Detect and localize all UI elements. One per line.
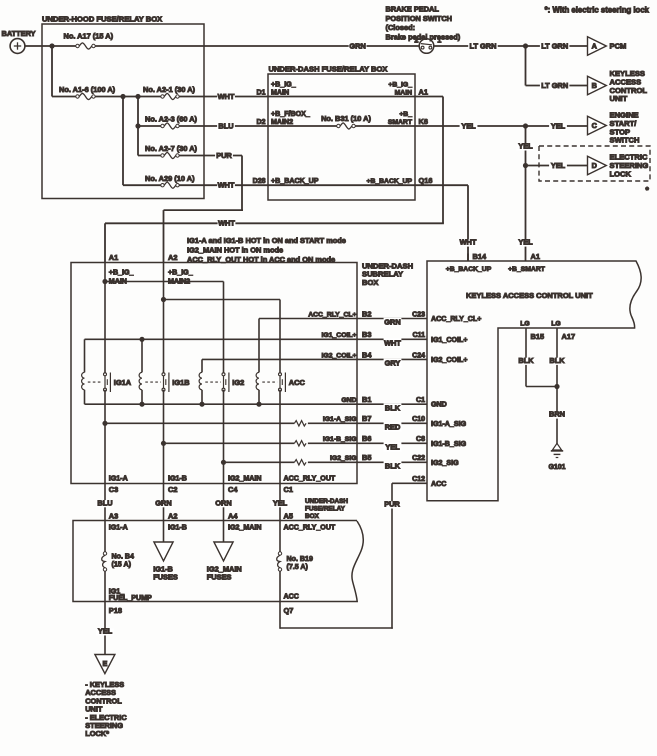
wire A3 to fuse B4 (104, 521, 106, 552)
under-dash fuse/relay box (268, 74, 415, 200)
brake pedal position switch (419, 39, 434, 54)
svg-text:GRN: GRN (349, 41, 365, 50)
fuse No. A29 (10 A) (161, 184, 164, 187)
svg-text:+B_IG_: +B_IG_ (109, 269, 134, 277)
svg-text:RED: RED (385, 423, 401, 432)
wire A2 to IG1-B fuses arrow (163, 521, 165, 543)
wire A1 to subrelay, WHT (105, 222, 444, 224)
fuse No. B19 (7.5 A) (278, 552, 281, 555)
svg-text:PUR: PUR (384, 500, 400, 509)
junction IG1A feed (102, 279, 107, 284)
svg-text:C12: C12 (412, 476, 425, 483)
wire B31 to K6 (355, 125, 415, 127)
wire PUR down to subrelay A2 (163, 210, 165, 262)
wire fuse A17 to brake switch, GRN (95, 45, 419, 47)
svg-text:B1: B1 (362, 395, 371, 404)
wire subrelay A1 pin down (104, 223, 106, 262)
wire branch to arrow D, YEL (526, 165, 588, 167)
wire C1 to A5, YEL (279, 484, 281, 521)
svg-text:WHT: WHT (218, 181, 235, 190)
wire GND B1 line (85, 403, 428, 405)
wire ACC_RLY_CL+ B2 line (258, 319, 260, 373)
svg-text:K6: K6 (419, 117, 428, 126)
svg-text:C2: C2 (168, 485, 177, 494)
wire A29 branch down (122, 97, 124, 186)
svg-text:C1: C1 (284, 485, 293, 494)
svg-text:BOX: BOX (305, 513, 320, 520)
svg-text:PUR: PUR (216, 151, 232, 160)
svg-text:FUSE/RELAY: FUSE/RELAY (305, 506, 346, 513)
svg-text:Q16: Q16 (419, 176, 433, 185)
svg-text:UNDER-DASH FUSE/RELAY BOX: UNDER-DASH FUSE/RELAY BOX (269, 65, 388, 74)
wire A5 to fuse B19 (279, 521, 281, 552)
svg-text:No. B4: No. B4 (112, 552, 135, 560)
svg-text:FUSES: FUSES (207, 573, 232, 582)
resistor IG2_SIG (294, 460, 306, 465)
resistor IG1-A_SIG (294, 421, 306, 426)
ground G101 (552, 443, 561, 450)
wire C3 to A3, BLU (104, 484, 106, 521)
svg-text:IG1B: IG1B (172, 378, 189, 387)
wire fuse B4 to P18 (104, 571, 106, 601)
wire A2-1 to D1, WHT (179, 96, 415, 98)
svg-text:IG1A: IG1A (114, 378, 132, 387)
svg-text:2: 2 (414, 36, 418, 45)
junction A29 branch (120, 94, 125, 99)
svg-text:C: C (592, 121, 598, 130)
svg-text:YEL: YEL (385, 443, 400, 452)
svg-text:SWITCH: SWITCH (610, 136, 640, 145)
svg-text:MAIN: MAIN (395, 89, 412, 96)
dashed box electric steering lock (539, 146, 650, 181)
svg-text:B2: B2 (362, 309, 371, 318)
wire Q16 out right (415, 184, 468, 186)
svg-text:IG1-A and IG1-B HOT in ON and: IG1-A and IG1-B HOT in ON and START mode (187, 236, 346, 245)
svg-text:B14: B14 (473, 252, 487, 261)
wire B15 down, BLK (525, 328, 527, 387)
svg-text:D2: D2 (257, 119, 266, 126)
wire A29 fuse row (123, 184, 161, 186)
svg-text:A: A (592, 42, 598, 51)
svg-text:WHT: WHT (218, 219, 235, 228)
fuse No. B4 (15 A) (103, 552, 106, 555)
svg-text:ACC_RLY_OUT: ACC_RLY_OUT (284, 523, 336, 531)
relay IG1B (139, 372, 142, 389)
wire up to C12, PUR (391, 483, 393, 629)
svg-text:C3: C3 (109, 485, 118, 494)
svg-text:Q7: Q7 (284, 606, 294, 615)
svg-text:IG1-B: IG1-B (168, 474, 187, 482)
svg-text:GRY: GRY (385, 359, 401, 368)
svg-text:+B_IG_: +B_IG_ (168, 269, 193, 277)
junction gnd IG2 (199, 402, 204, 407)
wire IG2_COIL+ B4 line (201, 359, 203, 372)
svg-text:LT GRN: LT GRN (541, 81, 568, 90)
svg-text:B6: B6 (362, 434, 371, 443)
svg-text:1: 1 (437, 36, 441, 45)
svg-text:UNDER-DASH: UNDER-DASH (305, 498, 348, 505)
svg-text:IG2_COIL+: IG2_COIL+ (431, 356, 467, 364)
svg-text:BLK: BLK (549, 356, 565, 365)
wire A2-3 fuse row (138, 125, 161, 127)
svg-text:No. A2-7 (30 A): No. A2-7 (30 A) (145, 144, 198, 153)
svg-text:ACC_RLY_OUT: ACC_RLY_OUT (284, 474, 336, 482)
svg-text:C11: C11 (413, 332, 426, 339)
svg-text:No. B31 (10 A): No. B31 (10 A) (321, 114, 371, 123)
svg-text:YEL: YEL (551, 161, 566, 170)
svg-text:No. A2-3 (60 A): No. A2-3 (60 A) (145, 115, 198, 124)
svg-text:WHT: WHT (460, 237, 477, 246)
wire feed to IG2 switch (105, 281, 224, 283)
fuse No. A2-3 (60 A) (161, 124, 164, 127)
svg-text:+B_F/BOX_: +B_F/BOX_ (271, 110, 310, 118)
wire A1 down (442, 97, 444, 224)
svg-text:C1: C1 (416, 397, 425, 404)
under-hood fuse/relay box (42, 24, 204, 199)
svg-text:IG1-B_SIG: IG1-B_SIG (431, 440, 467, 448)
svg-text:IG2_COIL+: IG2_COIL+ (322, 352, 357, 359)
svg-text:+B_BACK_UP: +B_BACK_UP (366, 178, 412, 185)
wire IG2_MAIN output (223, 390, 225, 484)
wire Q16 down to B14, WHT (467, 185, 469, 261)
wire IG1A switch feed (104, 263, 106, 375)
arrow IG1-B fuses (154, 542, 173, 561)
svg-text:YEL: YEL (98, 627, 113, 636)
svg-text:B: B (592, 81, 597, 90)
svg-text:A3: A3 (109, 511, 118, 520)
svg-text:D: D (592, 161, 597, 170)
wire brake switch to arrow A, LT GRN (434, 45, 588, 47)
svg-text:A2: A2 (168, 511, 177, 520)
svg-text:G101: G101 (548, 464, 565, 471)
svg-text:+B_BACK_UP: +B_BACK_UP (271, 177, 319, 185)
svg-text:(15 A): (15 A) (112, 560, 132, 568)
junction YEL (523, 123, 528, 128)
svg-text:C4: C4 (228, 485, 238, 494)
wire A2-7 to corner, PUR (179, 155, 242, 157)
svg-text:LG: LG (520, 320, 529, 327)
svg-text:UNIT: UNIT (610, 94, 628, 103)
svg-text:IG1-B: IG1-B (168, 523, 187, 531)
svg-text:GRN: GRN (384, 318, 400, 327)
svg-text:B3: B3 (362, 330, 371, 339)
svg-text:D1: D1 (257, 89, 266, 96)
svg-text:A1: A1 (109, 253, 118, 262)
svg-text:GND: GND (341, 397, 356, 404)
wire IG1-A output (104, 390, 106, 484)
wire K6 to arrow C, YEL (415, 125, 588, 127)
svg-text:E: E (102, 659, 107, 668)
arrow IG2_MAIN fuses (214, 542, 233, 561)
svg-text:D28: D28 (253, 178, 266, 185)
wire B15 join (526, 386, 557, 388)
junction gnd IG1B (139, 402, 144, 407)
svg-text:No. A17 (15 A): No. A17 (15 A) (64, 31, 114, 40)
wire A17 down, BLK (556, 328, 558, 444)
junction ground join (554, 384, 559, 389)
svg-text:No. A1-6 (100 A): No. A1-6 (100 A) (59, 85, 116, 94)
connector arrow B to keyless access control unit (588, 76, 607, 94)
wire IG1B switch feed (163, 263, 165, 375)
label BRN (548, 411, 566, 418)
svg-text:IG2_SIG: IG2_SIG (330, 455, 356, 462)
fuse No. B31 (10 A) (337, 124, 340, 127)
svg-text:A5: A5 (284, 511, 293, 520)
svg-text:(7.5 A): (7.5 A) (287, 563, 309, 571)
svg-text:FUSES: FUSES (153, 573, 178, 582)
svg-text:YEL: YEL (518, 141, 533, 150)
junction A2-3 branch (135, 94, 140, 99)
wire A2-3 to D2, BLU (179, 125, 337, 127)
junction IG2 sig (221, 460, 226, 465)
under-dash fuse/relay box bottom (73, 521, 363, 602)
battery (10, 39, 25, 54)
junction IG1B feed (161, 297, 166, 302)
junction A2-3 (135, 123, 140, 128)
wire IG1-B output (163, 390, 165, 484)
wire C2 to A2, GRN (163, 484, 165, 521)
wire row A1-6 to A2-1 fuses (52, 96, 76, 98)
wire battery junction down (51, 46, 53, 97)
svg-text:A1: A1 (531, 252, 540, 261)
svg-text:IG1-B_SIG: IG1-B_SIG (323, 436, 357, 443)
fuse No. A2-1 (30 A) (161, 95, 164, 98)
wire IG1_COIL+ B3 line (84, 339, 86, 372)
svg-text:ACC_RLY_CL+: ACC_RLY_CL+ (431, 315, 481, 323)
svg-text:FUEL_PUMP: FUEL_PUMP (109, 594, 152, 602)
svg-text:IG1-A: IG1-A (109, 523, 128, 531)
svg-text:No. B19: No. B19 (287, 555, 313, 563)
svg-text:IG2_MAIN HOT in ON mode: IG2_MAIN HOT in ON mode (187, 246, 283, 255)
wire ACC coil to gnd (258, 390, 260, 404)
wire A2-7 fuse row (138, 155, 161, 157)
wire A1 out right (415, 96, 443, 98)
under-dash subrelay box (71, 263, 357, 484)
wire P18 down, YEL (104, 602, 106, 655)
svg-text:(Closed:: (Closed: (386, 23, 416, 32)
svg-text:A17: A17 (562, 332, 576, 341)
svg-text:IG1-A_SIG: IG1-A_SIG (431, 420, 467, 428)
svg-text:No. A29 (10 A): No. A29 (10 A) (145, 174, 195, 183)
svg-text:IG1-A_SIG: IG1-A_SIG (323, 416, 357, 423)
svg-text:BLK: BLK (518, 356, 534, 365)
wire Q7 down (279, 602, 281, 629)
svg-text:WHT: WHT (218, 92, 235, 101)
wire branch to keyless arrow B, LT GRN (525, 46, 527, 86)
fuse No. A1-6 (100 A) (76, 95, 79, 98)
svg-text:IG1-A: IG1-A (109, 474, 128, 482)
wire B14 pin stub (467, 254, 469, 262)
svg-text:ACC: ACC (284, 593, 299, 601)
svg-text:WHT: WHT (384, 339, 401, 348)
connector arrow D to electric steering lock (588, 156, 607, 174)
wire A29 to D28, WHT (179, 184, 415, 186)
svg-text:LT GRN: LT GRN (470, 41, 497, 50)
wire PUR down (241, 156, 243, 211)
svg-text:C8: C8 (416, 436, 425, 443)
svg-text:B4: B4 (362, 350, 372, 359)
wire C12 into keyless (392, 482, 427, 484)
svg-text:IG1_COIL+: IG1_COIL+ (322, 332, 357, 339)
svg-text:BRN: BRN (549, 410, 565, 419)
relay ACC (256, 372, 259, 389)
connector arrow C to engine start/stop switch (588, 116, 607, 134)
svg-text:B5: B5 (362, 453, 371, 462)
wire battery to fuse A17 (25, 45, 76, 47)
wire fuse B19 to Q7 (279, 571, 281, 601)
svg-text:BLK: BLK (385, 403, 401, 412)
svg-text:Brake pedal pressed): Brake pedal pressed) (386, 32, 461, 41)
relay IG1A (82, 372, 85, 389)
junction LT GRN (523, 43, 528, 48)
svg-text:C24: C24 (412, 352, 425, 359)
svg-text:+B_BACK_UP: +B_BACK_UP (446, 266, 492, 273)
svg-text:UNDER-HOOD FUSE/RELAY BOX: UNDER-HOOD FUSE/RELAY BOX (42, 15, 162, 24)
svg-text:YEL: YEL (551, 121, 566, 130)
svg-text:LT GRN: LT GRN (541, 41, 568, 50)
wire IG2 coil to gnd (201, 390, 203, 404)
junction battery feed (49, 43, 54, 48)
svg-text:ACC: ACC (431, 480, 446, 488)
junction IG1B coil (139, 337, 144, 342)
keyless access control unit box (427, 261, 641, 501)
svg-text:POSITION SWITCH: POSITION SWITCH (386, 14, 453, 23)
svg-text:BLU: BLU (218, 121, 233, 130)
svg-text:YEL: YEL (461, 121, 476, 130)
svg-text:*: With electric steering lock: *: With electric steering lock (545, 6, 650, 15)
svg-text:C22: C22 (412, 455, 425, 462)
wire PUR left (164, 209, 244, 211)
relay IG2 (199, 372, 202, 389)
wire YEL down to keyless, YEL (525, 126, 527, 261)
svg-text:PCM: PCM (610, 42, 627, 51)
wire IG1-A_SIG B7 line (105, 422, 294, 424)
svg-text:A2: A2 (168, 253, 177, 262)
junction YEL steering (523, 163, 528, 168)
svg-text:+B_: +B_ (399, 111, 412, 118)
wire IG1B coil to gnd (141, 390, 143, 404)
svg-text:BOX: BOX (362, 278, 378, 287)
wire IG1A coil to gnd (84, 390, 86, 404)
svg-text:BLK: BLK (385, 462, 401, 471)
svg-text:+B_IG_: +B_IG_ (271, 80, 296, 88)
svg-text:LG: LG (551, 320, 560, 327)
wire IG2_SIG B5 line (224, 461, 295, 463)
svg-text:C10: C10 (412, 416, 425, 423)
wire IG1-B_SIG B6 line (164, 442, 295, 444)
svg-text:LOCK*: LOCK* (85, 729, 109, 738)
svg-text:GRN: GRN (155, 498, 171, 507)
svg-text:BLU: BLU (97, 498, 112, 507)
svg-text:ACC_RLY_CL+: ACC_RLY_CL+ (308, 311, 356, 318)
svg-text:B15: B15 (531, 332, 545, 341)
wire feed to ACC switch (164, 299, 281, 301)
svg-text:B7: B7 (362, 414, 371, 423)
connector arrow A to PCM (588, 37, 607, 55)
svg-text:LOCK: LOCK (610, 169, 632, 178)
svg-text:BRAKE PEDAL: BRAKE PEDAL (386, 5, 440, 14)
wire Q7 right (280, 627, 393, 629)
svg-text:+B_SMART: +B_SMART (508, 266, 546, 273)
svg-text:IG1_COIL+: IG1_COIL+ (431, 336, 467, 344)
svg-text:SMART: SMART (388, 119, 413, 126)
svg-text:IG2: IG2 (232, 378, 244, 387)
junction IG1-B sig (161, 441, 166, 446)
svg-text:A4: A4 (228, 511, 238, 520)
svg-text:P18: P18 (109, 606, 122, 615)
svg-text:+B_IG_: +B_IG_ (388, 81, 412, 88)
wire ACC_RLY_OUT output (279, 390, 281, 484)
svg-text:KEYLESS ACCESS CONTROL UNIT: KEYLESS ACCESS CONTROL UNIT (466, 291, 593, 300)
svg-text:No. A2-1 (30 A): No. A2-1 (30 A) (143, 85, 196, 94)
svg-text:YEL: YEL (273, 498, 288, 507)
svg-text:C23: C23 (412, 311, 425, 318)
connector arrow E (95, 655, 115, 674)
fuse No. A2-7 (30 A) (161, 154, 164, 157)
resistor IG1-B_SIG (294, 441, 306, 446)
svg-text:IG2_MAIN: IG2_MAIN (228, 474, 262, 482)
svg-text:GND: GND (431, 401, 447, 409)
svg-text:ORN: ORN (215, 498, 231, 507)
junction IG1-A sig (102, 421, 107, 426)
svg-text:MAIN: MAIN (271, 88, 289, 96)
wire C4 to A4, ORN (223, 484, 225, 521)
wire A2-3 branch down (137, 97, 139, 156)
svg-text:BATTERY: BATTERY (2, 29, 36, 38)
svg-text:MAIN2: MAIN2 (271, 118, 293, 126)
wire IG1B coil drop (141, 339, 143, 372)
fuse No. A17 (15 A) (76, 44, 79, 47)
wire A4 to IG2_MAIN fuses arrow (223, 521, 225, 543)
svg-text:YEL: YEL (518, 237, 533, 246)
svg-text:ACC: ACC (289, 378, 306, 387)
svg-text:IG2_SIG: IG2_SIG (431, 459, 459, 467)
junction gnd ACC (256, 402, 261, 407)
svg-text:A1: A1 (419, 87, 428, 96)
svg-text:IG2_MAIN: IG2_MAIN (228, 523, 262, 531)
